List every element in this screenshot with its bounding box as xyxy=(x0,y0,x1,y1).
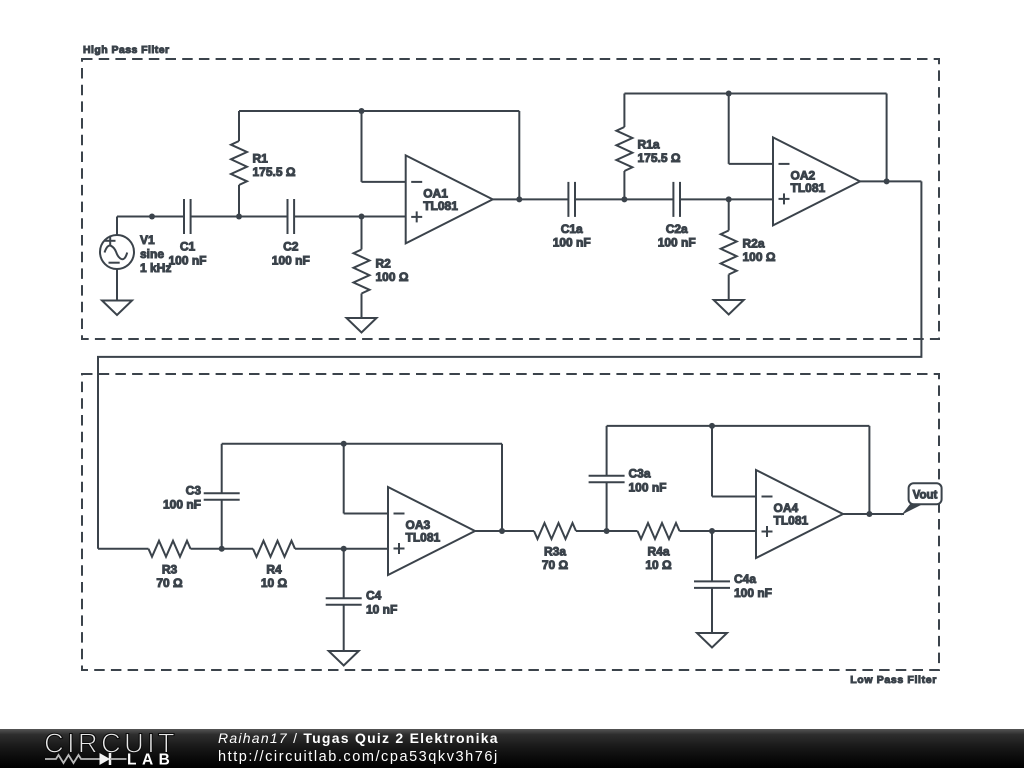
svg-text:175.5 Ω: 175.5 Ω xyxy=(253,165,296,179)
capacitor C2a xyxy=(673,182,680,217)
wire C3a top xyxy=(606,426,608,476)
Low Pass Filter section label xyxy=(850,674,937,686)
wire fb2 right vertical xyxy=(886,94,888,182)
svg-text:C4: C4 xyxy=(366,589,382,603)
V1 minus sign xyxy=(109,262,120,264)
svg-text:R4a: R4a xyxy=(647,545,669,559)
ground below R2a xyxy=(714,300,744,315)
feedback top wire stage3 xyxy=(222,443,502,445)
node dot R1 bottom xyxy=(236,214,242,220)
svg-text:sine: sine xyxy=(140,247,164,261)
wire C4 bottom xyxy=(343,605,345,651)
capacitor C3 xyxy=(204,493,240,500)
R4 label xyxy=(261,563,288,591)
svg-text:Vout: Vout xyxy=(913,489,938,501)
wire R3-R4 xyxy=(191,548,254,550)
svg-text:R3: R3 xyxy=(162,563,178,577)
R4a label xyxy=(645,545,672,573)
node dot R2a top xyxy=(726,196,732,202)
C1 label xyxy=(168,240,206,268)
wire fb1 to minus input xyxy=(362,181,406,183)
svg-text:100 nF: 100 nF xyxy=(629,481,667,495)
C3 label xyxy=(163,484,201,512)
node dot fb3 top xyxy=(341,441,347,447)
C4 label xyxy=(366,589,397,617)
op-amp OA1 xyxy=(406,155,493,243)
wire C3 bottom xyxy=(221,500,223,549)
wire V1 bottom xyxy=(116,269,118,301)
wire C2-opamp xyxy=(294,216,406,218)
wire OA3 output xyxy=(475,530,534,532)
R2 label xyxy=(376,257,409,285)
node dot C4 top xyxy=(341,546,347,552)
node dot C3a bottom xyxy=(604,528,610,534)
wire HP to LP route xyxy=(98,181,921,548)
svg-text:C1a: C1a xyxy=(561,222,583,236)
svg-text:TL081: TL081 xyxy=(406,531,441,545)
svg-text:70 Ω: 70 Ω xyxy=(542,558,569,572)
node dot OA4 out xyxy=(866,511,872,517)
node dot R1a bottom xyxy=(621,196,627,202)
ground below C4 xyxy=(329,651,359,666)
svg-text:100 Ω: 100 Ω xyxy=(743,250,776,264)
wire R3a-R4a xyxy=(576,530,638,532)
R2a label xyxy=(743,237,776,265)
wire fb1 vertical xyxy=(361,111,363,182)
svg-text:100 nF: 100 nF xyxy=(168,253,206,267)
node dot C4a top xyxy=(709,528,715,534)
svg-text:C1: C1 xyxy=(180,240,196,254)
resistor R2a xyxy=(721,231,737,275)
wire main node1a xyxy=(117,216,184,218)
node dot fb4 top xyxy=(709,423,715,429)
wire R1 top xyxy=(238,111,240,141)
wire R2a top xyxy=(728,199,730,230)
C3a label xyxy=(629,467,667,495)
wire C3 top xyxy=(221,444,223,494)
V1 label xyxy=(140,233,171,275)
wire C3a bottom xyxy=(606,482,608,531)
node dot C3 bottom xyxy=(219,546,225,552)
V1 sine wave xyxy=(105,245,128,259)
capacitor C4a xyxy=(694,581,730,588)
feedback top wire stage2 xyxy=(624,93,886,95)
C2 label xyxy=(272,240,310,268)
op-amp OA2 xyxy=(773,137,860,225)
wire V1 top xyxy=(116,217,118,236)
svg-text:LAB: LAB xyxy=(127,752,175,768)
voltage source V1 circle xyxy=(100,235,134,269)
svg-text:Low Pass Filter: Low Pass Filter xyxy=(850,674,937,686)
svg-text:100 nF: 100 nF xyxy=(734,586,772,600)
wire R1a bottom xyxy=(623,171,625,199)
wire OA4 output xyxy=(843,513,904,515)
capacitor C1a xyxy=(568,182,575,217)
svg-text:R2a: R2a xyxy=(743,237,765,251)
wire into R3 xyxy=(98,548,149,550)
svg-text:TL081: TL081 xyxy=(774,514,809,528)
wire R1 bottom xyxy=(238,185,240,217)
wire R4-opamp xyxy=(295,548,388,550)
Low Pass Filter dashed box xyxy=(82,374,939,670)
bottom CircuitLab bar xyxy=(0,729,1024,768)
CircuitLab logo diode xyxy=(100,753,111,765)
node dot OA3 out xyxy=(499,528,505,534)
wire fb4 to minus input xyxy=(712,496,756,498)
capacitor C1 xyxy=(184,199,191,234)
node dot fb1 top xyxy=(359,108,365,114)
node dot V1-C1 xyxy=(149,214,155,220)
wire fb2 to minus input xyxy=(729,163,773,165)
svg-text:R1a: R1a xyxy=(638,138,660,152)
node dot R2 top xyxy=(359,214,365,220)
svg-text:R1: R1 xyxy=(253,152,269,166)
svg-text:70 Ω: 70 Ω xyxy=(156,576,183,590)
wire fb2 vertical xyxy=(728,94,730,164)
wire C4a bottom xyxy=(711,588,713,633)
node dot OA1 out xyxy=(516,196,522,202)
wire C2a-opamp xyxy=(680,198,773,200)
C1a label xyxy=(553,222,591,250)
resistor R4a xyxy=(638,523,680,539)
R1a label xyxy=(638,138,681,166)
svg-text:10 nF: 10 nF xyxy=(366,603,397,617)
ground below C4a xyxy=(697,633,727,648)
svg-text:100 nF: 100 nF xyxy=(553,236,591,250)
svg-text:100 Ω: 100 Ω xyxy=(376,270,409,284)
svg-text:R3a: R3a xyxy=(544,545,566,559)
node dot fb2 top xyxy=(726,91,732,97)
wire C1a-C2a xyxy=(575,198,673,200)
CircuitLab logo resistor-diode squiggle xyxy=(45,755,100,763)
svg-text:R4: R4 xyxy=(266,563,282,577)
svg-text:10 Ω: 10 Ω xyxy=(645,558,672,572)
High Pass Filter dashed box xyxy=(82,59,939,339)
resistor R1 xyxy=(231,141,247,185)
Vout flag box xyxy=(909,483,942,504)
wire fb1 right vertical xyxy=(518,111,520,199)
wire fb4 vertical xyxy=(711,426,713,497)
svg-text:100 nF: 100 nF xyxy=(163,498,201,512)
svg-text:V1: V1 xyxy=(140,233,155,247)
svg-text:100 nF: 100 nF xyxy=(658,236,696,250)
R1 label xyxy=(253,152,296,180)
svg-text:Raihan17 / Tugas Quiz 2 Elektr: Raihan17 / Tugas Quiz 2 Elektronika xyxy=(218,730,499,746)
feedback top wire stage4 xyxy=(607,425,870,427)
node dot OA2 out xyxy=(884,178,890,184)
capacitor C4 xyxy=(326,598,362,605)
svg-text:High Pass Filter: High Pass Filter xyxy=(83,44,170,56)
svg-text:C3a: C3a xyxy=(629,467,651,481)
op-amp OA4 xyxy=(756,470,843,558)
op-amp OA3 xyxy=(388,487,475,575)
resistor R2 xyxy=(354,250,370,294)
wire fb3 to minus input xyxy=(344,513,388,515)
svg-text:1 kHz: 1 kHz xyxy=(140,261,171,275)
wire R2a bottom xyxy=(728,275,730,301)
svg-text:http://circuitlab.com/cpa53qkv: http://circuitlab.com/cpa53qkv3h76j xyxy=(218,749,499,765)
capacitor C2 xyxy=(288,199,295,234)
svg-text:C2a: C2a xyxy=(666,222,688,236)
R3a label xyxy=(542,545,569,573)
C2a label xyxy=(658,222,696,250)
svg-text:TL081: TL081 xyxy=(791,181,826,195)
wire OA1 output xyxy=(493,198,569,200)
wire R2 top xyxy=(361,217,363,250)
feedback top wire stage1 xyxy=(239,110,519,112)
svg-text:10 Ω: 10 Ω xyxy=(261,576,288,590)
svg-text:TL081: TL081 xyxy=(423,199,458,213)
High Pass Filter section label xyxy=(83,44,170,56)
wire C4a top xyxy=(711,531,713,581)
wire fb3 right vertical xyxy=(501,444,503,531)
wire OA2 output xyxy=(860,180,921,182)
resistor R3a xyxy=(534,523,576,539)
Vout flag pointer xyxy=(901,504,924,516)
V1 plus sign xyxy=(105,236,116,246)
capacitor C3a xyxy=(589,476,625,483)
resistor R4 xyxy=(253,541,295,557)
resistor R1a xyxy=(616,127,632,171)
wire R1a top xyxy=(623,94,625,128)
resistor R3 xyxy=(149,541,191,557)
ground below R2 xyxy=(347,318,377,333)
wire C4 top xyxy=(343,549,345,598)
wire R4a-opamp xyxy=(680,530,757,532)
svg-text:R2: R2 xyxy=(376,257,392,271)
svg-text:C3: C3 xyxy=(186,484,202,498)
wire C1-C2 xyxy=(191,216,288,218)
wire fb4 right vertical xyxy=(868,426,870,514)
svg-text:C4a: C4a xyxy=(734,572,756,586)
wire R2 bottom xyxy=(361,294,363,319)
svg-text:175.5 Ω: 175.5 Ω xyxy=(638,151,681,165)
ground below V1 xyxy=(102,301,132,316)
svg-text:C2: C2 xyxy=(283,240,299,254)
C4a label xyxy=(734,572,772,600)
R3 label xyxy=(156,563,183,591)
svg-text:100 nF: 100 nF xyxy=(272,253,310,267)
wire fb3 vertical xyxy=(343,444,345,514)
